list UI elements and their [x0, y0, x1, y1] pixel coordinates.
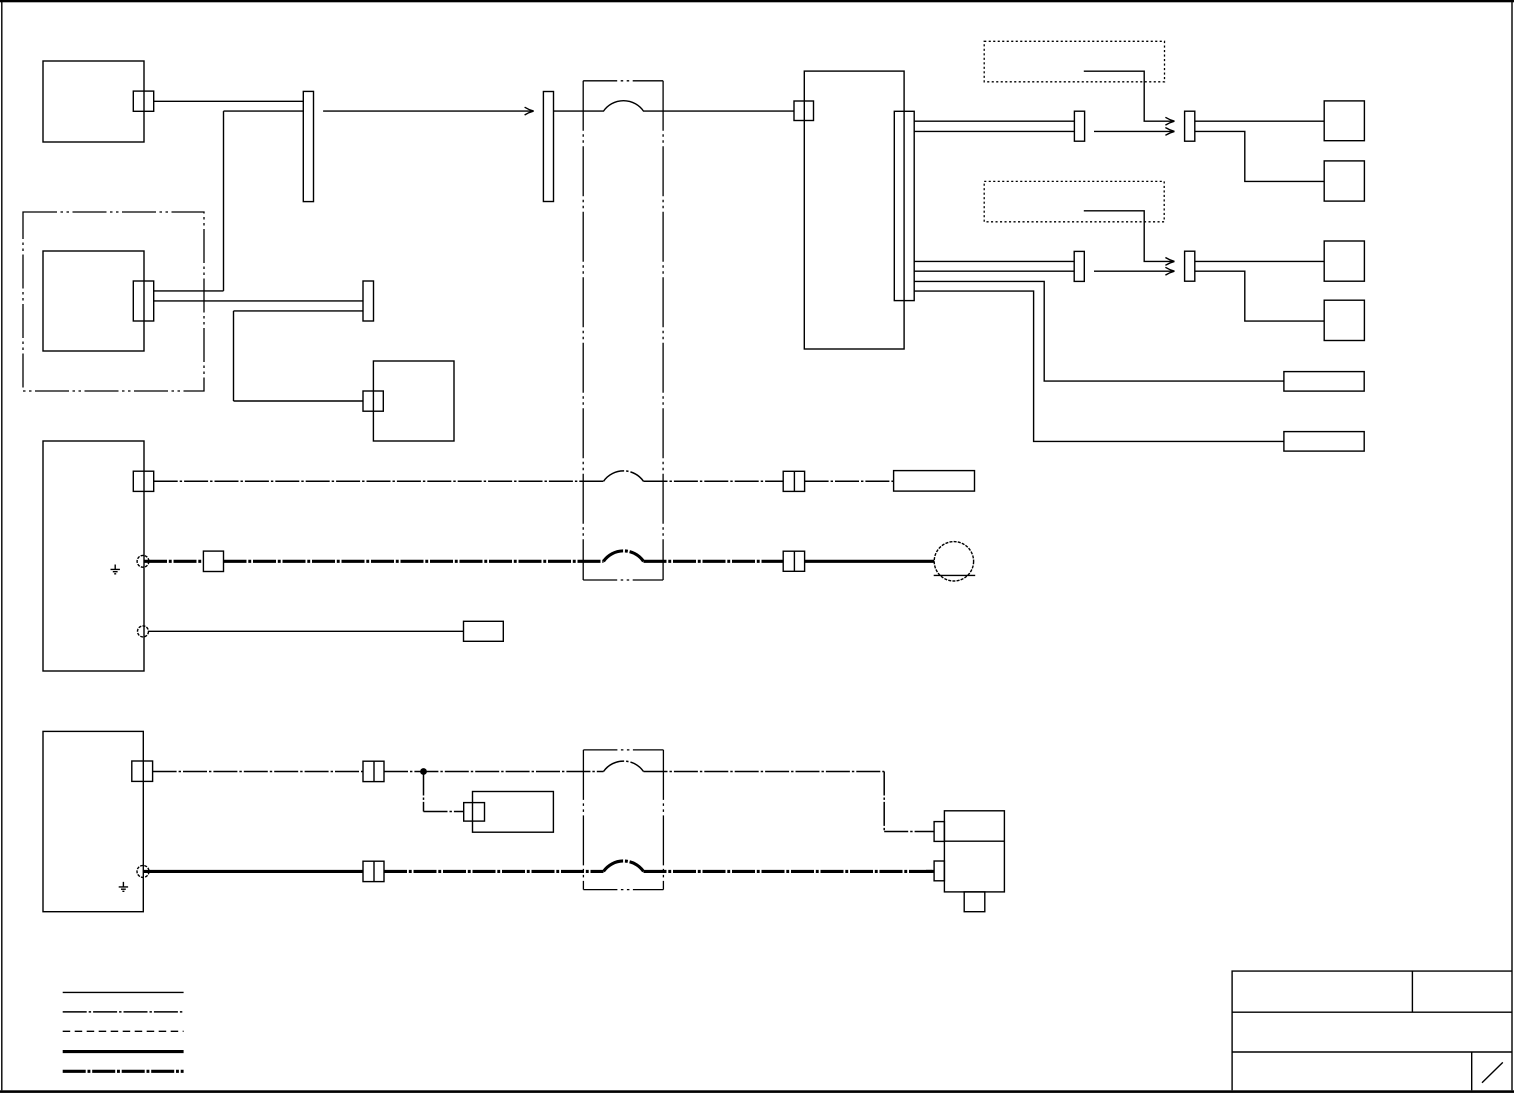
wire strip pin2 to bar B1 [914, 130, 1074, 132]
connector C2 on A2 right edge [133, 281, 153, 321]
wire CP1 to terminal block R7 [805, 480, 894, 482]
arrowhead into J2 [525, 107, 534, 115]
wire C10 to load R4 [1195, 271, 1324, 321]
option link wire in D1 [1084, 71, 1174, 121]
harness hump thick wire [604, 551, 644, 561]
wire strip pin3 to bar B2 [914, 260, 1074, 262]
connector C5 on A5 right edge [132, 761, 153, 781]
component box A4 (middle left) [43, 441, 144, 671]
stub terminal R8 [464, 621, 504, 641]
wire segment into J1 at y111 [224, 110, 304, 112]
wire harness to connector pair CP1 [644, 480, 784, 482]
connector C3 on A3 left edge [363, 391, 383, 411]
connector C1 on A1 right edge [133, 91, 153, 111]
motor M1 circle [934, 542, 973, 581]
wire C9 to load R1 [1195, 120, 1324, 122]
option link wire in D2 [1084, 211, 1174, 262]
dash-dot wire harness to sensor drop [644, 771, 885, 773]
thick dash-dot harness to C8b [644, 870, 935, 873]
dash-dot run into C8a [884, 831, 934, 833]
dotted option box D2 [984, 181, 1164, 221]
wire C10 to load R3 [1195, 260, 1324, 262]
arrowhead into C10 bottom [1165, 267, 1174, 275]
title block row line 1 [1232, 1011, 1512, 1013]
terminal block R5 [1284, 372, 1364, 392]
motor M1 base line [934, 574, 976, 576]
harness conduit H1 (upper) [583, 81, 663, 580]
connector pair CP1 [783, 471, 804, 491]
component box A3 [373, 361, 454, 441]
grommet box on thick wire [203, 551, 223, 571]
wire C2 pin2 to bar J3 [154, 300, 363, 302]
wire strip pin1 to bar B1 [914, 120, 1074, 122]
component box A6 [473, 792, 554, 833]
arrowhead into C10 top [1165, 258, 1174, 266]
ground symbol at A5 [119, 882, 128, 891]
harness hump thick lower wire [604, 861, 644, 871]
connector bar C9 [1185, 111, 1195, 141]
wire down leg x233 [233, 311, 235, 401]
connector C6 on A6 left edge [464, 803, 485, 822]
connector C4 on A4 right edge [133, 471, 153, 491]
junction bar J1 [303, 91, 313, 201]
wire J1 to arrow [323, 110, 533, 112]
pin circle P2 on A4 [138, 626, 149, 637]
wire J3 pin to A3: left run [234, 310, 364, 312]
connector pair CP4 [363, 861, 384, 881]
connector bar C10 [1185, 251, 1195, 281]
junction bar J3 [363, 281, 374, 321]
legend dash-dot sample [63, 1011, 184, 1013]
frame left border [1, 2, 3, 1090]
connector C8b on A7 [934, 861, 944, 881]
A7 bottom tab [964, 892, 985, 912]
component box A2 [43, 251, 144, 351]
connector pair CP3 [363, 761, 384, 781]
component box A5 (bottom left) [43, 731, 143, 911]
frame top border [0, 0, 1514, 2]
harness conduit H2 (lower) [583, 750, 663, 890]
thick wire P3 to connector pair CP4 [144, 870, 363, 873]
thick dash-dot harness to CP2 [644, 560, 784, 563]
dash-dot-dot enclosure around A2 [23, 212, 204, 391]
legend thick solid sample [63, 1050, 184, 1053]
title block divider row1 [1411, 971, 1413, 1012]
arrowhead into C9 top [1165, 117, 1174, 125]
frame right border [1511, 2, 1513, 1090]
load box R2 [1324, 161, 1364, 201]
arrowhead into C9 bottom [1165, 128, 1174, 136]
wire B1 out to arrow [1094, 130, 1174, 132]
connector C7 on ECU left edge [794, 101, 814, 121]
dash-dot wire CP3 to harness [384, 771, 604, 773]
wire P2 to stub terminal R8 [149, 630, 464, 632]
title block row line 2 [1232, 1051, 1512, 1053]
wire strip pin5 to terminal R5 [914, 281, 1284, 381]
wire vertical riser x223 [223, 111, 225, 291]
ECU connector strip S1 [894, 111, 914, 300]
load box R3 [1324, 241, 1364, 281]
title block divider row3 [1471, 1052, 1473, 1090]
legend thick dash-dot sample [63, 1070, 184, 1073]
wire C1 pin to junction bar J1 [154, 100, 304, 102]
wire strip pin6 to terminal R6 [914, 291, 1284, 441]
wire C2 pin1 to riser [154, 290, 224, 292]
title block diagonal slash [1482, 1062, 1503, 1082]
dash-dot branch run to C6 [424, 811, 464, 813]
thick dash-dot wire to harness [224, 560, 604, 563]
legend thin solid sample [63, 991, 184, 993]
legend dashed sample [63, 1030, 184, 1032]
wire C4 dash-dot to harness [154, 480, 604, 482]
junction dot splice S1 [420, 768, 427, 775]
A7 internal divider [944, 840, 1004, 842]
thick wire CP2 to motor M1 [805, 560, 935, 563]
wire B2 out to arrow [1094, 270, 1174, 272]
wire J2 through harness grommet to ECU [554, 101, 795, 111]
connector C8a on A7 [934, 822, 944, 842]
component box A7 (sensor) [944, 811, 1004, 892]
junction bar J2 [543, 92, 553, 202]
junction bar B1 [1074, 111, 1084, 141]
thick dash-dot CP4 to harness [384, 870, 604, 873]
terminal block R7 [894, 471, 975, 492]
wire strip pin4 to bar B2 [914, 270, 1074, 272]
load box R1 [1324, 101, 1364, 141]
dash-dot wire C5 to connector pair CP3 [153, 771, 363, 773]
harness grommet hump on signal wire [604, 471, 644, 481]
terminal block R6 [1284, 432, 1364, 452]
pin circle P3 on A5 [137, 865, 149, 877]
frame bottom border [0, 1090, 1514, 1093]
wire bottom run to C3 [234, 400, 364, 402]
battery feed thick wire P1 to grommet box [144, 560, 203, 563]
dash-dot drop leg x884 [883, 772, 885, 832]
harness hump lower signal wire [604, 761, 644, 771]
component box A1 (top left) [43, 61, 144, 142]
dash-dot branch down from splice [423, 772, 425, 812]
title block outline [1232, 971, 1512, 1090]
load box R4 [1324, 300, 1364, 340]
ground symbol inside A4 [111, 565, 120, 574]
wire C9 to load R2 [1195, 131, 1324, 181]
connector pair CP2 [783, 551, 804, 571]
junction bar B2 [1074, 251, 1084, 281]
pin circle P1 on A4 [137, 555, 149, 567]
dotted option box D1 [984, 41, 1164, 82]
ECU box U1 [804, 71, 904, 349]
